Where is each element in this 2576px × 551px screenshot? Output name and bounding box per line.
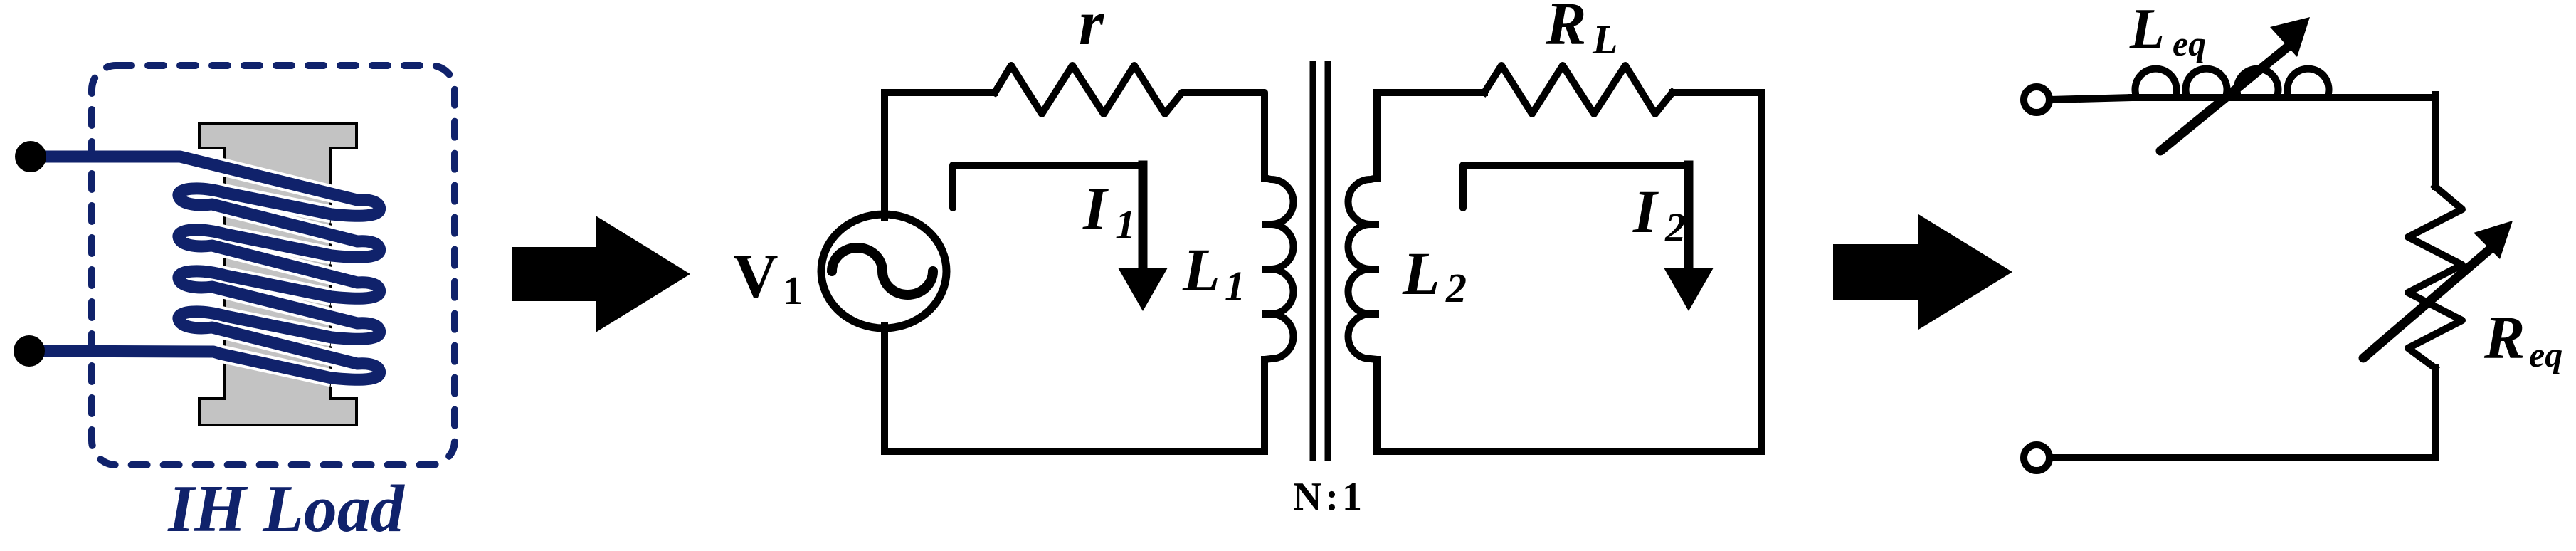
wire return 2 + hook L2 + steep 2 + hook R3 — [179, 230, 380, 298]
block arrow 2 — [1833, 214, 2012, 330]
transformer core line 1 — [1310, 64, 1316, 458]
terminal bottom open circle — [2024, 445, 2049, 471]
svg-text:N:1: N:1 — [1293, 475, 1366, 519]
svg-text:1: 1 — [1225, 263, 1245, 309]
svg-text:L: L — [1182, 236, 1220, 304]
wire return 1 + hook L1 + steep 1 + hook R2 — [179, 189, 380, 257]
wire from top terminal — [2049, 98, 2132, 100]
terminal top open circle — [2024, 87, 2049, 112]
terminal top — [15, 141, 46, 172]
coil — [14, 141, 380, 379]
wire primary bottom rail — [885, 326, 1265, 451]
wire return 4 + hook L4 + steep 4 + hook R5 — [179, 312, 380, 379]
svg-text:eq: eq — [2529, 335, 2562, 374]
svg-text:IH Load: IH Load — [167, 472, 406, 546]
terminal bottom — [14, 335, 45, 367]
svg-text:eq: eq — [2173, 23, 2206, 63]
svg-text:V: V — [733, 242, 778, 311]
variable arrow through Leq head — [2270, 17, 2310, 57]
wire primary top-left + left rail to source — [885, 93, 995, 217]
resistor Req zigzag — [2408, 187, 2462, 368]
dashed border — [92, 65, 455, 465]
current arrow I2 head — [1664, 268, 1714, 311]
resistor r zigzag + wire to top-right corner — [995, 65, 1265, 178]
svg-text:1: 1 — [783, 269, 803, 313]
arrows — [512, 214, 2012, 332]
variable arrow through Leq shaft — [2160, 43, 2293, 151]
wire secondary top-left + left rail — [1377, 93, 1484, 178]
block arrow 1 — [512, 216, 690, 332]
wire top lead + first diagonal + hook R1 — [31, 157, 380, 216]
variable arrow through Req head — [2474, 221, 2513, 259]
svg-text:r: r — [1079, 0, 1104, 58]
equivalent circuit — [2024, 0, 2562, 471]
inductor Leq winding arches — [2136, 69, 2329, 97]
svg-text:L: L — [1402, 239, 1440, 308]
svg-text:I: I — [1632, 177, 1659, 246]
transformer circuit — [733, 0, 1762, 519]
svg-text:2: 2 — [1664, 204, 1686, 251]
IH load dashed box — [92, 65, 455, 546]
svg-text:R: R — [1545, 0, 1586, 58]
wire return 3 + hook L3 + steep 3 + hook R4 — [179, 271, 380, 339]
resistor RL zigzag — [1484, 65, 1672, 114]
current loop I2 bracket — [1463, 165, 1689, 208]
current arrow I1 head — [1118, 268, 1168, 311]
svg-text:1: 1 — [1115, 201, 1136, 248]
current arrow I1 stem — [1139, 165, 1148, 273]
bottom wire — [2049, 368, 2435, 458]
wire secondary bottom rail + right rail — [1377, 93, 1762, 451]
wire Leq to corner and down — [2432, 95, 2439, 187]
current arrow I2 stem — [1684, 165, 1694, 273]
current loop I1 bracket — [953, 165, 1143, 208]
svg-text:2: 2 — [1445, 265, 1467, 311]
svg-text:R: R — [2483, 303, 2525, 372]
variable arrow through Req shaft — [2363, 246, 2494, 358]
core I-beam — [199, 123, 357, 425]
svg-text:L: L — [1592, 16, 1617, 63]
svg-text:I: I — [1082, 174, 1109, 243]
sine wave inside V1 — [832, 248, 933, 295]
transformer core line 2 — [1325, 64, 1331, 458]
core — [199, 123, 357, 425]
voltage source V1 circle — [821, 214, 946, 328]
inductor L1 winding — [1262, 178, 1294, 360]
wire top rail through Leq — [2132, 94, 2435, 101]
svg-text:L: L — [2129, 0, 2165, 61]
wire bottom return + bottom lead — [29, 351, 332, 378]
inductor L2 winding — [1348, 178, 1379, 360]
